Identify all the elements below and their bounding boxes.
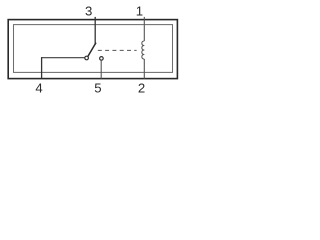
pin 4 vertical wire [41,57,43,79]
pin 4 horizontal common wire [42,57,85,59]
relay outer case [8,20,177,79]
pin 5 wire [100,60,102,78]
pin 3 wire [94,17,96,45]
pin 2 wire [143,59,145,79]
relay K1 schematic [0,0,189,102]
relay inner case [14,25,173,73]
pin 5 contact [100,57,104,61]
switch pivot contact [85,56,89,60]
svg-text:4: 4 [35,81,42,96]
svg-text:5: 5 [94,81,101,96]
svg-text:1: 1 [136,4,143,19]
switch lever [88,43,96,57]
svg-text:3: 3 [85,4,92,19]
pin 1 wire [143,17,145,41]
mechanical link (dashed) [98,49,137,51]
svg-text:2: 2 [138,81,145,96]
coil L1 [142,41,144,59]
